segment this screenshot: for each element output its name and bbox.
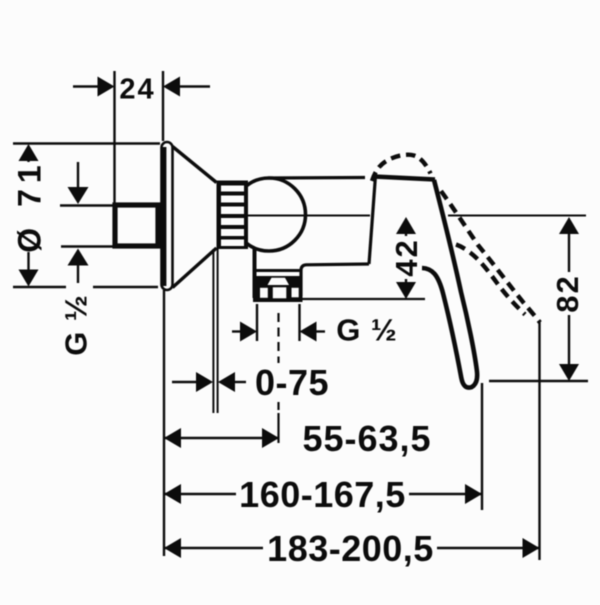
supply pipe bottom edge [61, 245, 116, 248]
pipe thread square [115, 205, 158, 246]
escutcheon flange [162, 142, 173, 290]
svg-text:160-167,5: 160-167,5 [239, 474, 406, 515]
svg-text:24: 24 [119, 74, 155, 106]
dim diameter71 top extension [13, 142, 160, 144]
escutcheon flange thick left edge [162, 147, 166, 286]
svg-text:G ½: G ½ [336, 313, 398, 348]
svg-text:Ø 71: Ø 71 [12, 159, 48, 252]
centerline left segment [248, 215, 370, 217]
outlet G half extension lines [256, 304, 258, 341]
svg-text:183-200,5: 183-200,5 [267, 528, 434, 569]
42 lower reference line [301, 298, 425, 300]
handle lever solid [374, 177, 435, 180]
dim 183-200,5 [164, 547, 263, 549]
centerline right segment [448, 215, 586, 217]
dim diameter71 bottom extension [13, 286, 66, 288]
handle raised dashed hump [372, 155, 431, 181]
bell bottom slant [173, 248, 217, 288]
dim 55-63,5 [164, 437, 279, 439]
bell top slant [173, 147, 217, 183]
body bottom edge with step [301, 264, 369, 296]
pipe G half dim arrows [77, 162, 79, 188]
supply pipe top edge [60, 204, 116, 207]
body right face [369, 176, 376, 265]
svg-text:55-63,5: 55-63,5 [302, 418, 431, 459]
dim 0-75 arrows at alt wall line [172, 381, 197, 383]
svg-text:0-75: 0-75 [255, 362, 329, 403]
body top line [268, 176, 365, 180]
dim 24 tails [73, 85, 101, 87]
handle raised dashed outline lower [456, 245, 525, 315]
knurled union nut [217, 181, 249, 250]
outlet left edge [253, 249, 257, 298]
svg-text:82: 82 [550, 274, 585, 312]
dashed tip extension line [538, 322, 540, 560]
dim 24 extension line left [113, 71, 115, 203]
dim 82 line and arrows [559, 217, 579, 234]
dim 82 top reference is centerline, bottom reference line [489, 380, 588, 382]
dim 24 arrows [98, 77, 115, 97]
outlet nut body [253, 276, 303, 302]
outlet G half dim arrows [232, 330, 242, 332]
svg-text:G ½: G ½ [59, 294, 94, 356]
wall reference line [163, 290, 165, 556]
dim 24 extension line right [162, 71, 164, 141]
outlet centerline dashed [277, 313, 279, 363]
dim diameter71 line and arrows [27, 155, 29, 162]
handle raised dashed descent [441, 191, 540, 323]
alt wall double line [212, 249, 214, 413]
dim 42 line and arrows [396, 217, 416, 234]
outlet nut top line [256, 269, 300, 272]
dim 160-167,5 [164, 493, 236, 495]
svg-text:42: 42 [389, 238, 424, 276]
handle tip extension line [481, 383, 483, 510]
valve body circle [233, 178, 306, 251]
